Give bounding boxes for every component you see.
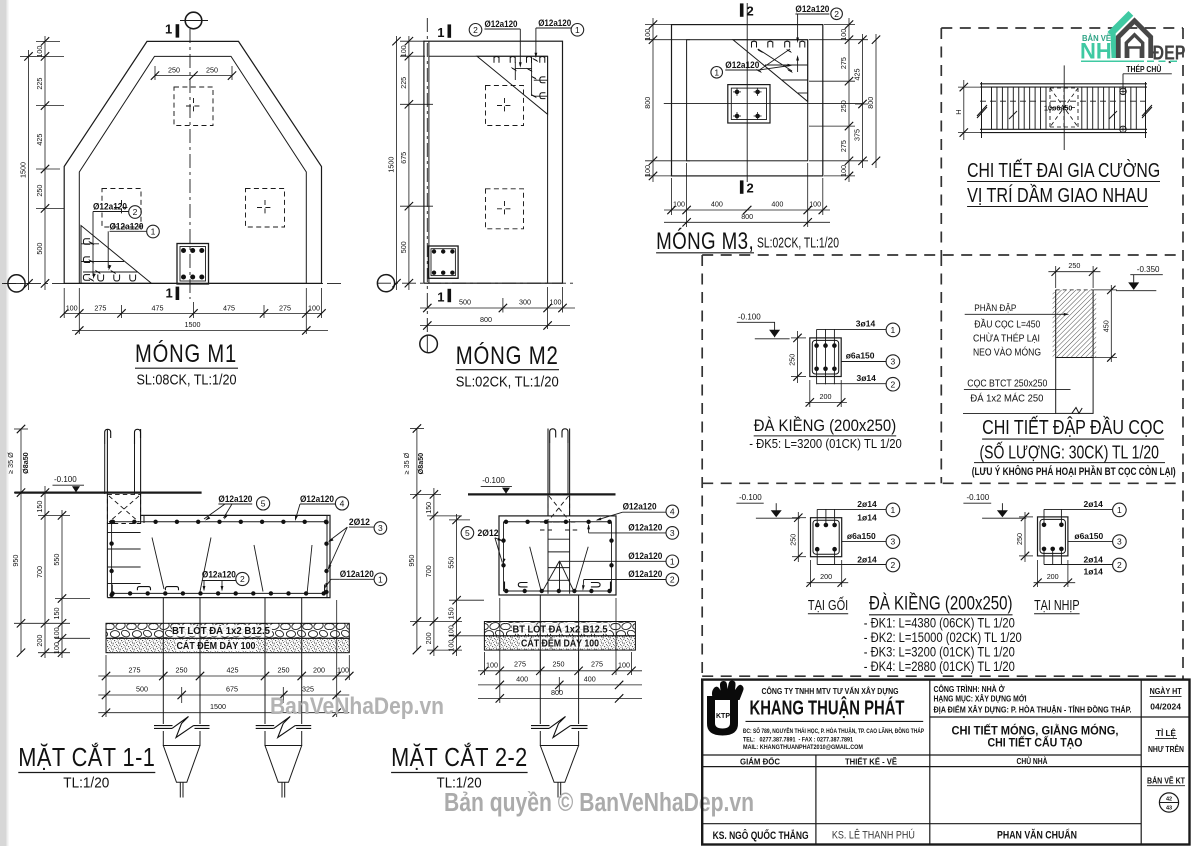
svg-text:275: 275: [129, 666, 141, 675]
svg-text:950: 950: [407, 555, 416, 567]
pile head dim 250: [1048, 271, 1100, 273]
svg-text:ø6a150: ø6a150: [847, 531, 876, 541]
M2 bottom axis circle: [420, 335, 438, 353]
svg-text:MẶT CẮT 1-1: MẶT CẮT 1-1: [18, 742, 155, 772]
M1 inner outline: [79, 56, 306, 283]
svg-text:KHANG THUẬN PHÁT: KHANG THUẬN PHÁT: [750, 696, 905, 720]
dashed frame divider y255: [702, 254, 1183, 256]
pile head dim 450: [1110, 285, 1112, 362]
svg-text:CÔNG TY TNHH MTV TƯ VẤN XÂY DỰ: CÔNG TY TNHH MTV TƯ VẤN XÂY DỰNG: [762, 685, 899, 696]
S22 bottom splice hooks: [518, 583, 527, 587]
svg-text:Ø12a120: Ø12a120: [725, 60, 759, 71]
S11 layer label CAT DEM: [176, 640, 256, 652]
logo teal underline: [1081, 60, 1144, 62]
svg-text:TẠI GỐI: TẠI GỐI: [808, 596, 848, 614]
svg-text:250: 250: [35, 185, 44, 197]
svg-text:≥ 35 Ø: ≥ 35 Ø: [402, 452, 411, 474]
svg-text:NEO VÀO MÓNG: NEO VÀO MÓNG: [973, 346, 1041, 359]
svg-text:500: 500: [459, 298, 471, 307]
svg-text:100: 100: [337, 666, 349, 675]
svg-text:500: 500: [35, 243, 44, 255]
svg-text:475: 475: [152, 303, 164, 312]
svg-text:ø6a150: ø6a150: [846, 351, 875, 361]
svg-text:1: 1: [437, 290, 444, 305]
svg-text:1: 1: [891, 505, 896, 515]
svg-text:225: 225: [35, 78, 44, 90]
svg-text:3: 3: [891, 357, 896, 367]
svg-text:CÁT ĐỆM DÀY 100: CÁT ĐỆM DÀY 100: [521, 637, 599, 650]
svg-text:100: 100: [35, 46, 44, 58]
svg-text:-0.100: -0.100: [54, 475, 77, 484]
svg-text:100: 100: [308, 303, 320, 312]
svg-text:1500: 1500: [19, 162, 28, 178]
S11 column stub dashed box with X: [107, 494, 140, 523]
svg-text:SL:02CK, TL:1/20: SL:02CK, TL:1/20: [757, 236, 839, 252]
svg-text:400: 400: [771, 200, 783, 209]
svg-text:1ø14: 1ø14: [1084, 567, 1104, 577]
svg-text:BẢN VẼ KT: BẢN VẼ KT: [1147, 776, 1185, 785]
table horizontal divider y717 right part: [930, 716, 1190, 718]
svg-text:SL:02CK, TL:1/20: SL:02CK, TL:1/20: [456, 375, 559, 391]
M1 bottom overall dimension 1500: [72, 330, 328, 332]
M3 right dimension chain middle: [862, 34, 864, 168]
S22 bottom dim chain row1: [478, 670, 642, 672]
svg-text:250: 250: [1015, 533, 1024, 545]
S22 pile tip: [540, 746, 578, 783]
svg-text:550: 550: [52, 554, 61, 566]
svg-text:TỈ LỆ: TỈ LỆ: [1156, 727, 1176, 738]
DK5 dim 250: [797, 331, 799, 383]
svg-text:CỌC BTCT 250x250: CỌC BTCT 250x250: [967, 377, 1047, 389]
logo house door gap: [1128, 47, 1141, 58]
S11 pile 1 lower with break: [162, 623, 164, 724]
M1 bottom dimension chain row1: [64, 312, 321, 314]
M2 horizontal section line (dash-dot): [377, 282, 575, 284]
svg-text:10ø6a50: 10ø6a50: [1044, 104, 1072, 113]
S11 left chain 150-700-200: [44, 486, 46, 658]
svg-text:1: 1: [1117, 505, 1122, 515]
S22 layer label BT LOT: [512, 623, 609, 634]
S22 left chain 150-700-200: [433, 488, 435, 656]
svg-text:GIÁM ĐỐC: GIÁM ĐỐC: [740, 755, 780, 766]
M1 hatched corner triangle with rebar: [81, 226, 152, 284]
svg-text:Ø12a120: Ø12a120: [202, 570, 236, 581]
svg-text:100: 100: [643, 29, 652, 41]
S11 stirrup diagonals: [152, 538, 164, 590]
DK5 dim 200: [805, 401, 847, 403]
svg-text:Ø12a120: Ø12a120: [628, 523, 662, 534]
S11 pile 1 upper: [162, 598, 164, 624]
svg-text:300: 300: [519, 298, 531, 307]
S11 wall rebar line with dots: [111, 524, 113, 594]
table vertical divider director/designer: [815, 755, 817, 845]
table horizontal divider y823.7: [702, 823, 1141, 825]
table horizontal divider y766.6: [702, 766, 1189, 768]
svg-text:2ø14: 2ø14: [857, 499, 877, 509]
table horizontal divider y755: [702, 754, 1141, 756]
TAI NHIP rebar dots: [1042, 523, 1047, 528]
logo house dark outline: [1118, 21, 1150, 58]
svg-text:Ø12a120: Ø12a120: [340, 569, 374, 580]
KTP logo: [707, 680, 744, 735]
svg-text:100: 100: [52, 627, 61, 639]
svg-text:100: 100: [618, 660, 630, 669]
M3 center column block: [728, 85, 770, 123]
svg-text:100: 100: [839, 29, 848, 41]
dashed frame divider y483: [702, 482, 1183, 484]
svg-text:2: 2: [834, 9, 839, 19]
svg-text:5: 5: [465, 528, 470, 538]
svg-text:200: 200: [35, 635, 44, 647]
M1 left dimension chain: [44, 36, 46, 290]
svg-text:1: 1: [575, 25, 580, 35]
S22 lean concrete layer: [484, 622, 635, 636]
svg-text:800: 800: [480, 315, 492, 324]
M2 column block bottom-left: [428, 246, 458, 278]
M2 vertical section line (dash-dot): [426, 18, 428, 336]
pile head hatch edge marks: [1053, 292, 1056, 358]
svg-text:ĐÀ KIỀNG (200x250): ĐÀ KIỀNG (200x250): [869, 593, 1013, 615]
S22 inner cage side lines: [503, 522, 505, 591]
svg-text:250: 250: [553, 659, 565, 668]
table outer border: [702, 680, 1189, 845]
svg-text:ĐÀ KIỀNG (200x250): ĐÀ KIỀNG (200x250): [754, 416, 897, 435]
M3 bottom marker 2: [740, 180, 744, 193]
svg-text:275: 275: [94, 303, 106, 312]
svg-text:CÁT ĐỆM DÀY 100: CÁT ĐỆM DÀY 100: [177, 639, 256, 652]
svg-text:CHI TIẾT ĐAI GIA CƯỜNG: CHI TIẾT ĐAI GIA CƯỜNG: [967, 159, 1160, 182]
svg-text:Ø12a120: Ø12a120: [300, 494, 334, 505]
dashed frame right edge: [1182, 28, 1184, 679]
svg-text:HẠNG MỤC: XÂY DỰNG MỚI: HẠNG MỤC: XÂY DỰNG MỚI: [934, 693, 1027, 704]
svg-text:1: 1: [891, 325, 896, 335]
TAI NHIP dim 200: [1034, 582, 1076, 584]
svg-text:100: 100: [399, 45, 408, 57]
svg-text:2: 2: [670, 575, 675, 585]
svg-text:2Ø12: 2Ø12: [349, 517, 370, 528]
dashed frame left edge lower: [701, 255, 703, 679]
S11 lean concrete layer: [106, 623, 349, 638]
svg-text:100: 100: [447, 625, 456, 637]
svg-text:1: 1: [714, 67, 719, 77]
S11 bottom dim chain row1: [98, 675, 349, 677]
S11 pile 1 tip: [163, 746, 200, 783]
svg-text:H: H: [954, 109, 963, 114]
svg-text:2: 2: [1117, 560, 1122, 570]
M1 column block with rebar (bottom center): [177, 244, 209, 285]
beam H dimension: [963, 80, 965, 140]
S22 column rebar hooks top: [550, 429, 556, 443]
S11 top rebar line with dots: [112, 521, 327, 523]
svg-text:- ĐK2: L=15000 (02CK) TL 1/20: - ĐK2: L=15000 (02CK) TL 1/20: [864, 630, 1022, 645]
svg-text:CHI TIẾT ĐẬP ĐẦU CỌC: CHI TIẾT ĐẬP ĐẦU CỌC: [982, 416, 1164, 439]
svg-text:200: 200: [313, 666, 325, 675]
svg-text:1ø14: 1ø14: [857, 512, 877, 522]
svg-text:1: 1: [165, 22, 172, 37]
svg-text:43: 43: [1166, 806, 1172, 812]
svg-text:250: 250: [1068, 261, 1080, 270]
S11 wall verticals: [106, 429, 108, 598]
svg-text:-0.100: -0.100: [967, 493, 990, 502]
svg-text:KS. NGÔ QUỐC THẮNG: KS. NGÔ QUỐC THẮNG: [713, 828, 809, 842]
S22 pile upper: [539, 595, 541, 622]
svg-text:-0.100: -0.100: [738, 313, 761, 322]
S22 sand layer: [484, 636, 635, 650]
S22 column stub dashed box with X: [540, 494, 578, 530]
svg-text:VỊ TRÍ DẦM GIAO NHAU: VỊ TRÍ DẦM GIAO NHAU: [967, 184, 1148, 207]
M2 hatched corner triangle top-right: [477, 56, 548, 114]
S22 bottom rebar line with dots: [504, 590, 612, 592]
svg-text:800: 800: [551, 688, 563, 697]
M3 vertical axis line: [746, 3, 748, 182]
svg-text:4: 4: [340, 498, 345, 508]
svg-text:NHƯ TRÊN: NHƯ TRÊN: [1148, 745, 1184, 754]
svg-text:Ø12a120: Ø12a120: [485, 19, 518, 30]
svg-text:275: 275: [591, 659, 603, 668]
svg-text:1500: 1500: [185, 320, 201, 329]
M3 bottom overall dimension 800: [664, 221, 830, 223]
S22 layer label CAT DEM: [520, 637, 600, 648]
M3 rebar label circle 1 with leader: [711, 67, 723, 79]
svg-text:675: 675: [399, 152, 408, 164]
svg-text:ĐỊA ĐIỂM XÂY DỰNG: P. HÒA THUẬ: ĐỊA ĐIỂM XÂY DỰNG: P. HÒA THUẬN - TỈNH Đ…: [934, 703, 1132, 714]
beam stirrups left group: [991, 87, 993, 129]
TAI GOI section rect: [811, 518, 842, 557]
svg-text:1500: 1500: [210, 702, 226, 711]
svg-text:2: 2: [891, 560, 896, 570]
M2 overall left dimension 1500: [396, 36, 398, 290]
svg-text:500: 500: [399, 241, 408, 253]
svg-text:150: 150: [447, 607, 456, 619]
svg-text:400: 400: [516, 674, 528, 683]
svg-text:Ø12a120: Ø12a120: [795, 4, 829, 15]
pile head hatched zone: [1056, 290, 1093, 358]
svg-text:BT LÓT ĐÁ 1x2 B12.5: BT LÓT ĐÁ 1x2 B12.5: [172, 624, 270, 637]
S11 left corner hook: [112, 585, 115, 594]
svg-text:Ø8a50: Ø8a50: [21, 452, 30, 474]
M2 rebar label circle 2 top with leader: [469, 24, 482, 37]
M1 inner top dimension 250/250: [155, 75, 232, 77]
pile bottom base line: [963, 412, 1056, 414]
S11 bottom dim chain row2: [98, 694, 349, 696]
S11 wall ladder rungs: [107, 532, 140, 534]
svg-text:42: 42: [1166, 797, 1172, 803]
svg-text:MAIL: KHANGTHUANPHAT2010@GMAIL: MAIL: KHANGTHUANPHAT2010@GMAIL.COM: [743, 745, 863, 751]
S22 left chain 550-150-100-100: [456, 514, 458, 656]
svg-text:-0.100: -0.100: [739, 493, 762, 502]
beam main bar circles: [1120, 88, 1126, 94]
M3 bottom dimension chain: [664, 209, 830, 211]
svg-text:MÓNG M2: MÓNG M2: [456, 341, 559, 370]
svg-text:BT LÓT ĐÁ 1x2 B12.5: BT LÓT ĐÁ 1x2 B12.5: [513, 622, 608, 635]
svg-text:100: 100: [550, 298, 562, 307]
DK5 rebar verticals: [816, 329, 818, 384]
svg-text:475: 475: [223, 303, 235, 312]
M1 vertical centerline (dash-dot): [189, 29, 191, 299]
svg-text:800: 800: [866, 97, 875, 109]
S22 pile lower with break: [539, 622, 541, 725]
S22 column verticals: [547, 429, 549, 516]
S11 pile 2 upper: [264, 598, 266, 624]
S11 sand layer: [106, 638, 349, 652]
svg-text:Ø12a120: Ø12a120: [93, 202, 127, 213]
svg-text:MÓNG M3,: MÓNG M3,: [656, 228, 754, 255]
svg-text:ĐC: SỐ 789, NGUYỄN THÁI HỌC, P: ĐC: SỐ 789, NGUYỄN THÁI HỌC, P. HÒA THUẬ…: [743, 727, 924, 735]
beam center dashed X zone: [1050, 88, 1078, 127]
sheet number bubble: [1159, 793, 1178, 812]
M2 bottom dimension chain: [420, 307, 575, 309]
svg-text:NGÀY HT: NGÀY HT: [1150, 687, 1182, 696]
company name rule: [746, 720, 924, 722]
S22 column bars splay: [542, 561, 560, 593]
svg-text:ĐÁ 1x2 MÁC 250: ĐÁ 1x2 MÁC 250: [970, 392, 1043, 405]
svg-text:3: 3: [378, 523, 383, 533]
svg-text:2Ø12: 2Ø12: [478, 528, 499, 539]
svg-text:NH: NH: [1080, 39, 1112, 64]
svg-text:500: 500: [136, 685, 148, 694]
svg-text:250: 250: [788, 534, 797, 546]
svg-text:ĐẦU CỌC L=450: ĐẦU CỌC L=450: [974, 317, 1040, 330]
svg-text:Ø12a120: Ø12a120: [538, 18, 571, 29]
svg-text:200: 200: [820, 392, 832, 401]
M3 right dimension chain inner: [848, 18, 850, 182]
beam bottom chord: [980, 128, 1147, 130]
svg-text:800: 800: [741, 212, 753, 221]
TAI GOI rebar verticals bottom: [816, 549, 818, 564]
svg-text:275: 275: [279, 303, 291, 312]
M2 dashed pad upper: [486, 86, 524, 126]
S11 wall rebar hooks top: [105, 429, 111, 444]
M3 horizontal axis line: [664, 103, 864, 105]
S11 right corner hook: [322, 585, 325, 594]
S22 ground level line: [468, 493, 616, 495]
svg-text:450: 450: [1101, 320, 1110, 332]
S22 bottom dim chain row2: [478, 684, 642, 686]
svg-text:200: 200: [424, 632, 433, 644]
svg-text:250: 250: [788, 354, 797, 366]
M1 outer outline: [64, 41, 321, 283]
S11 bottom rebar line with dots: [112, 592, 327, 594]
svg-text:100: 100: [839, 165, 848, 177]
svg-text:275: 275: [839, 140, 848, 152]
svg-text:PHẦN ĐẬP: PHẦN ĐẬP: [974, 303, 1016, 313]
TAI GOI rebar verticals top: [816, 509, 818, 525]
svg-text:1500: 1500: [387, 157, 396, 173]
svg-text:TL:1/20: TL:1/20: [63, 775, 109, 792]
svg-text:≥ 35 Ø: ≥ 35 Ø: [6, 452, 15, 474]
svg-text:ø6a150: ø6a150: [1074, 531, 1103, 541]
svg-text:3ø14: 3ø14: [856, 319, 876, 329]
svg-text:2: 2: [891, 379, 896, 389]
pile body break mark: [1072, 408, 1082, 414]
M3 inner square: [687, 40, 808, 161]
svg-text:100: 100: [66, 303, 78, 312]
beam left end break: [981, 82, 983, 138]
beam right end break: [1145, 82, 1147, 138]
logo house teal chimney stroke: [1108, 11, 1134, 37]
beam dashed axis: [980, 100, 1147, 102]
svg-text:BanVeNhaDep.vn: BanVeNhaDep.vn: [270, 693, 444, 720]
svg-text:550: 550: [447, 557, 456, 569]
S11 left chain 550-150-100-100: [61, 510, 63, 658]
svg-text:250: 250: [839, 100, 848, 112]
svg-text:MÓNG M1: MÓNG M1: [135, 339, 237, 368]
dashed frame left edge upper (logo box): [940, 28, 942, 255]
svg-text:1: 1: [151, 227, 156, 237]
M1 overall left dimension 1500: [28, 50, 30, 290]
svg-text:100: 100: [673, 200, 685, 209]
page left edge shading: [0, 0, 7, 846]
M2 left axis circle: [377, 275, 394, 292]
svg-text:Ø8a50: Ø8a50: [416, 453, 425, 475]
svg-text:3: 3: [670, 528, 675, 538]
S22 top rebar line with dots: [504, 521, 612, 523]
svg-text:(LƯU Ý KHÔNG PHÁ HOẠI PHẦN BT: (LƯU Ý KHÔNG PHÁ HOẠI PHẦN BT CỌC CÒN LẠ…: [972, 465, 1176, 478]
svg-text:2ø14: 2ø14: [1084, 499, 1104, 509]
svg-text:275: 275: [514, 659, 526, 668]
svg-text:- ĐK4: L=2880 (01CK) TL 1/20: - ĐK4: L=2880 (01CK) TL 1/20: [864, 659, 1015, 674]
M1 dashed column pad top-center: [174, 87, 213, 126]
svg-text:1: 1: [437, 25, 444, 40]
svg-text:4: 4: [670, 506, 675, 516]
S11 layer label BT LOT: [172, 625, 272, 637]
TAI NHIP dim 250: [1024, 512, 1026, 562]
M1 horizontal section line (dash-dot): [2, 282, 345, 284]
svg-text:Ø12a120: Ø12a120: [628, 569, 662, 580]
M2 inner lines: [429, 55, 548, 57]
M3 outer square: [672, 25, 823, 176]
svg-text:100: 100: [52, 642, 61, 654]
svg-text:3: 3: [1117, 537, 1122, 547]
beam stirrups right group: [1081, 87, 1083, 129]
TAI NHIP rebar verticals top: [1043, 509, 1045, 524]
svg-text:1: 1: [378, 574, 383, 584]
S11 bottom splice hooks: [137, 587, 150, 591]
svg-text:2: 2: [747, 181, 754, 196]
M1 left axis circle: [8, 275, 25, 292]
svg-text:(SỐ LƯỢNG: 30CK) TL 1/20: (SỐ LƯỢNG: 30CK) TL 1/20: [980, 441, 1159, 462]
M3 hatched corner triangle: [733, 40, 808, 102]
svg-text:2: 2: [473, 25, 478, 35]
svg-text:TEL: 0277.387.7891 - FAX :: TEL: 0277.387.7891 - FAX : 0277.387.7891: [743, 738, 854, 744]
svg-text:CHI TIẾT CẤU TẠO: CHI TIẾT CẤU TẠO: [988, 735, 1083, 750]
svg-text:PHAN VĂN CHUẨN: PHAN VĂN CHUẨN: [997, 829, 1077, 842]
S11 bottom dim chain row3 1500: [98, 712, 349, 714]
svg-text:- ĐK5: L=3200 (01CK) TL 1/20: - ĐK5: L=3200 (01CK) TL 1/20: [749, 436, 902, 451]
svg-text:THÉP CHỦ: THÉP CHỦ: [1126, 65, 1161, 74]
svg-text:400: 400: [711, 200, 723, 209]
svg-text:2: 2: [133, 207, 138, 217]
svg-text:250: 250: [278, 666, 290, 675]
svg-text:2ø14: 2ø14: [857, 554, 877, 564]
M2 dashed pad lower: [486, 189, 524, 229]
dashed frame bottom edge above title block: [702, 675, 1183, 677]
svg-text:3: 3: [891, 537, 896, 547]
DK5 rebar dots: [814, 343, 819, 348]
svg-text:400: 400: [584, 674, 596, 683]
svg-text:100: 100: [447, 640, 456, 652]
svg-text:425: 425: [35, 134, 44, 146]
TAI GOI rebar dots: [815, 523, 820, 528]
svg-text:-0.100: -0.100: [482, 476, 505, 485]
TAI NHIP section rect: [1038, 517, 1068, 556]
S22 label circle 5: [461, 527, 474, 540]
S22 corner hooks: [505, 582, 508, 591]
svg-text:Ø12a120: Ø12a120: [110, 221, 144, 232]
svg-text:- ĐK3: L=3200 (01CK) TL 1/20: - ĐK3: L=3200 (01CK) TL 1/20: [864, 645, 1015, 660]
svg-text:CHỪA THÉP LẠI: CHỪA THÉP LẠI: [973, 332, 1040, 345]
dashed frame top edge (logo box): [941, 27, 1183, 29]
